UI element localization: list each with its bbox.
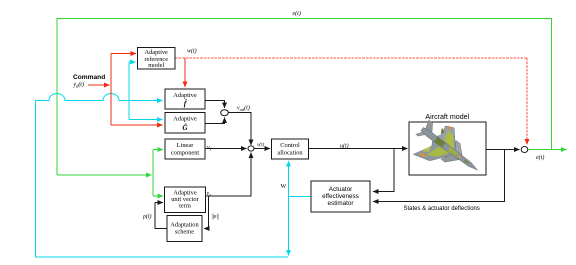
svg-text:Adaptation: Adaptation [170, 222, 199, 229]
svg-text:Linear: Linear [177, 142, 195, 149]
svg-text:model: model [148, 62, 164, 69]
svg-text:scheme: scheme [175, 229, 194, 236]
svg-text:Ĝ: Ĝ [182, 122, 188, 132]
svg-text:Aircraft model: Aircraft model [425, 113, 469, 121]
svg-text:Adaptive: Adaptive [173, 116, 197, 123]
svg-text:Control: Control [280, 142, 300, 149]
svg-text:||e||: ||e|| [212, 214, 219, 220]
svg-text:Actuator: Actuator [329, 186, 352, 193]
svg-text:u(t): u(t) [340, 143, 349, 150]
svg-text:estimator: estimator [328, 200, 354, 207]
svg-text:vad(t): vad(t) [237, 105, 250, 113]
svg-text:term: term [179, 203, 191, 210]
svg-text:yd(t): yd(t) [72, 81, 84, 89]
svg-text:component: component [171, 150, 200, 157]
svg-text:ρ(t): ρ(t) [142, 213, 152, 220]
svg-text:W: W [281, 184, 287, 190]
svg-text:v(t): v(t) [257, 141, 264, 148]
svg-text:e(t): e(t) [536, 154, 544, 161]
svg-text:w(t): w(t) [187, 48, 197, 55]
svg-text:States & actuator deflections: States & actuator deflections [404, 206, 480, 212]
svg-text:e(t): e(t) [293, 10, 301, 17]
svg-text:effectiveness: effectiveness [322, 193, 359, 200]
svg-text:Command: Command [73, 74, 105, 81]
svg-text:Adaptive: Adaptive [173, 92, 197, 99]
svg-text:allocation: allocation [277, 150, 303, 157]
svg-text:vn: vn [207, 191, 213, 198]
